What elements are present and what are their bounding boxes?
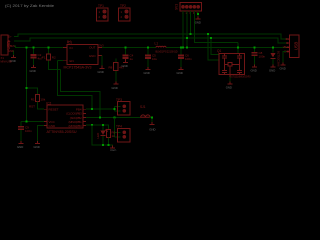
capacitor C5 [147,48,149,68]
svg-text:Q1: Q1 [217,49,221,53]
svg-text:MCP1754SA-3V3: MCP1754SA-3V3 [64,65,92,69]
resistor R1 [35,95,39,102]
svg-text:(C) 2017 by Zak Kemble: (C) 2017 by Zak Kemble [5,3,55,8]
svg-text:EN: EN [70,59,74,63]
svg-text:GND: GND [122,64,128,68]
svg-text:GND: GND [280,67,286,71]
ground GND Q1 [229,75,231,78]
wire PB0 gnd rail [92,125,113,145]
svg-text:GND: GND [177,71,183,75]
svg-text:10u: 10u [152,57,157,61]
USB connector X1 [1,35,8,55]
wire SV1 pin2 [186,11,188,48]
svg-text:RST: RST [29,104,35,108]
svg-text:GND: GND [49,124,57,128]
svg-text:R1: R1 [31,98,35,102]
svg-text:GND: GND [251,69,257,73]
wire SV1 pin1 [182,11,184,48]
wire PB0 row to LED and R6 [86,125,109,130]
svg-text:USB: USB [293,42,298,51]
wire SV1 pin3 [190,11,192,34]
svg-text:3V3: 3V3 [99,43,104,47]
svg-text:GND: GND [30,69,36,73]
svg-text:GND: GND [112,86,118,90]
svg-text:GND: GND [110,149,116,152]
svg-text:BLM21PG221SN1D: BLM21PG221SN1D [156,49,178,53]
svg-text:IC1: IC1 [67,41,72,45]
wire rail A to resonator [208,34,219,60]
svg-text:VBUS: VBUS [8,44,15,48]
svg-text:IN: IN [70,46,73,50]
voltage regulator IC1 [63,46,102,49]
svg-text:GND: GND [98,70,104,74]
wire rail B to resonator [211,38,219,55]
svg-text:100n: 100n [185,57,192,61]
capacitor C6 [180,48,182,68]
wire MCU GND pin [38,126,45,142]
svg-text:LED: LED [96,132,100,139]
svg-text:OUT: OUT [89,46,96,50]
wire MCU VCC feed vertical [26,48,28,122]
wire D+ rail A [14,34,286,39]
wire VBUS rail left [14,46,63,48]
svg-text:D+: D+ [286,37,290,41]
node junction VBUS feed [26,47,28,49]
svg-text:(MOSI)PB0: (MOSI)PB0 [69,124,83,128]
wire TP4 vertical [115,117,121,136]
svg-text:SJ1: SJ1 [140,105,146,109]
wire X2 GND [283,52,287,63]
USB connector X2 [290,35,300,58]
svg-text:D-: D- [286,41,289,45]
wire PB4 row to TP3 [86,106,121,111]
svg-text:GND: GND [17,145,23,149]
svg-text:MINI-USB: MINI-USB [1,59,12,63]
svg-text:D-: D- [8,39,11,43]
svg-text:CSTCE16M0V53-R0: CSTCE16M0V53-R0 [230,74,251,78]
ground GND SV1 pin5 [197,11,199,17]
wire RST net [37,102,44,110]
wire SJ1 to gnd [150,117,152,122]
svg-text:SV1: SV1 [175,4,179,10]
resistor R6 [106,130,110,138]
capacitor C9 [20,122,22,142]
capacitor C4 [125,48,127,56]
svg-text:R2: R2 [52,55,56,59]
capacitor C8 [254,48,256,65]
svg-text:F1: F1 [42,56,46,60]
capacitor C2 [33,48,35,66]
wire IC1 gnd pin [98,54,102,57]
svg-text:100n: 100n [259,55,266,59]
wire SV1 pin4 [194,11,237,43]
svg-text:VBUS: VBUS [283,45,290,49]
svg-text:BZT52C3V6: BZT52C3V6 [277,51,281,67]
svg-text:100n: 100n [25,129,32,133]
svg-text:GND: GND [269,69,275,73]
wire EN net [57,61,92,109]
wire D- rail B [14,38,286,43]
wire VCC to reset pullup [27,88,38,95]
pin header SV1 [180,3,202,12]
svg-text:GND: GND [226,86,232,90]
fuse F1 [49,48,100,118]
diode D1 zener [272,48,274,65]
svg-text:ATTINY85-20SSU: ATTINY85-20SSU [47,130,78,134]
svg-text:1k: 1k [112,134,116,138]
svg-text:L1: L1 [155,41,159,45]
svg-text:GND: GND [34,145,40,149]
wire VBUS rail right [102,47,287,49]
wire PB2 row to jumper [86,116,141,118]
wire resonator pin3 [237,43,239,54]
svg-text:D+: D+ [8,35,12,39]
svg-text:GND: GND [8,49,13,53]
svg-text:RESET: RESET [49,108,59,112]
svg-text:GND: GND [89,54,97,58]
wire USB X1 GND [13,51,15,55]
svg-text:10k: 10k [40,98,45,102]
svg-text:GND: GND [195,21,201,25]
svg-text:GND: GND [144,71,150,75]
svg-text:GND: GND [149,128,155,132]
resistor R8 [115,59,117,82]
svg-text:1u: 1u [130,57,134,61]
svg-text:R8: R8 [109,66,113,70]
wire VCC row [21,121,44,123]
